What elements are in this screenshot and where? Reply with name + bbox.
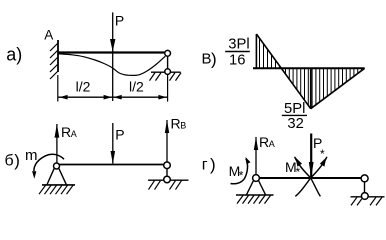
svg-text:P: P: [115, 126, 124, 142]
svg-text:R: R: [259, 134, 269, 150]
svg-text:R: R: [171, 116, 181, 132]
svg-text:l/2: l/2: [129, 79, 144, 95]
svg-text:*: *: [296, 165, 301, 179]
svg-text:): ): [210, 155, 216, 174]
svg-text:m: m: [25, 147, 38, 164]
svg-text:г: г: [202, 156, 208, 173]
svg-text:3Pl: 3Pl: [228, 37, 249, 53]
svg-text:R: R: [61, 124, 71, 140]
svg-text:A: A: [44, 27, 53, 42]
svg-text:P: P: [115, 13, 124, 29]
svg-text:A: A: [71, 129, 77, 139]
svg-text:5Pl: 5Pl: [284, 101, 305, 117]
svg-text:а): а): [6, 45, 22, 65]
svg-text:A: A: [269, 139, 275, 149]
svg-text:): ): [211, 50, 217, 69]
svg-text:l/2: l/2: [76, 79, 91, 95]
svg-text:16: 16: [229, 53, 245, 69]
svg-text:32: 32: [287, 116, 303, 132]
svg-text:): ): [14, 151, 20, 170]
svg-text:б: б: [5, 153, 14, 170]
svg-text:B: B: [180, 121, 186, 131]
svg-text:В: В: [202, 51, 212, 68]
svg-text:*: *: [320, 147, 325, 161]
